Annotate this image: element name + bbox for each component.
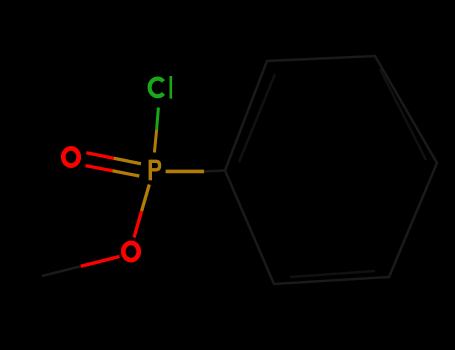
double bond inner line right-top edge bbox=[380, 69, 426, 160]
wire: O-CH3 methyl bond red half bbox=[81, 257, 120, 267]
wire: P-Cl bond green half bbox=[157, 108, 159, 131]
double bond inner line bottom edge bbox=[290, 271, 375, 277]
wire: P=O double bond lower line red half bbox=[86, 166, 113, 171]
atom label O (phosphoryl) bbox=[63, 148, 79, 165]
benzene ring (phenyl), dark carbon skeleton bbox=[225, 56, 437, 284]
atom label O (ester) bbox=[123, 243, 139, 260]
wire: O-CH3 methyl bond dark half bbox=[42, 266, 81, 276]
double bond inner line top-left edge bbox=[239, 74, 275, 162]
wire: P=O double bond upper line orange half bbox=[114, 158, 141, 164]
wire: P-Cl bond orange half bbox=[154, 130, 156, 153]
atom label Cl (l glyph bar) bbox=[170, 76, 173, 99]
wire: P-O ester bond orange half bbox=[142, 185, 150, 212]
atom label P (stem) bbox=[149, 160, 152, 181]
wire: P=O double bond upper line red half bbox=[86, 153, 113, 159]
wire: P-O ester bond red half bbox=[134, 211, 142, 238]
wire: P-C bond orange half bbox=[166, 170, 204, 174]
atom label P (bowl) bbox=[151, 161, 160, 170]
ring outline bbox=[225, 56, 437, 284]
wire: C-P bond dark half bbox=[204, 169, 225, 172]
wire: P=O double bond lower line orange half bbox=[112, 171, 139, 176]
atom label Cl (C glyph drawn as arc) bbox=[150, 79, 164, 97]
